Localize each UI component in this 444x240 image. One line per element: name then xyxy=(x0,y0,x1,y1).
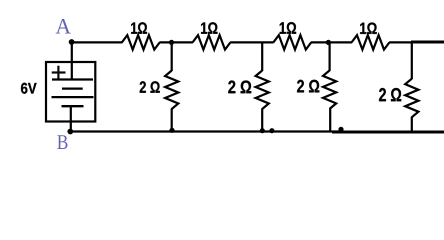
label R2 1-ohm xyxy=(201,22,217,33)
wire: junction 4 to right edge (thicker) xyxy=(411,41,444,44)
resistor R5 bottom lead xyxy=(171,109,173,132)
node B dot xyxy=(67,129,73,135)
resistor R1 1ohm zigzag xyxy=(122,35,160,50)
resistor R2 1ohm zigzag xyxy=(193,35,231,50)
wire: R4 to junction 4 xyxy=(389,41,413,43)
node A dot xyxy=(69,39,75,45)
label R1 1-ohm xyxy=(131,22,147,33)
battery bottom lead wire xyxy=(70,106,72,131)
node label A xyxy=(56,19,71,34)
resistor R5 2ohm vertical zigzag xyxy=(165,71,178,110)
junction dot top 3 xyxy=(326,40,331,45)
label R7 2-ohm xyxy=(297,80,319,93)
battery plate long 2 xyxy=(52,96,94,98)
resistor R3 1ohm zigzag xyxy=(273,35,311,50)
wire: R2 to R3 through junction 2 xyxy=(230,41,274,43)
wire top: node A to R1 xyxy=(71,41,123,43)
resistor R6 2ohm vertical: top lead xyxy=(261,42,263,71)
wire: R1 to junction 1 xyxy=(159,41,193,43)
label 6V xyxy=(21,83,37,94)
label R8 2-ohm xyxy=(379,88,401,101)
battery V1 box xyxy=(46,62,95,122)
resistor R6 2ohm vertical zigzag xyxy=(256,71,269,110)
label R4 1-ohm xyxy=(360,23,377,34)
resistor R8 bottom lead xyxy=(411,117,413,132)
resistor R7 bottom lead xyxy=(329,108,331,131)
battery top lead wire xyxy=(71,42,73,79)
junction dot bottom 1 xyxy=(169,128,174,133)
resistor R8 2ohm vertical zigzag xyxy=(405,79,418,118)
wire bottom: node B to VR3 xyxy=(70,130,341,132)
resistor R4 1ohm zigzag xyxy=(352,35,390,50)
label R5 2-ohm xyxy=(140,81,160,92)
resistor R6 bottom lead xyxy=(261,109,263,132)
resistor R8 2ohm vertical: top lead xyxy=(411,42,413,79)
battery plate short 2 xyxy=(62,105,84,107)
junction dot top 1 xyxy=(169,40,174,45)
resistor R7 2ohm vertical zigzag xyxy=(323,70,336,109)
wire: R3 to R4 through junction 3 xyxy=(311,41,352,43)
battery plate long 1 xyxy=(52,78,93,80)
node label B xyxy=(57,135,67,149)
junction dot bottom 2 xyxy=(260,128,265,133)
resistor R7 2ohm vertical: top lead xyxy=(329,42,331,71)
label R3 1-ohm xyxy=(280,22,296,34)
resistor R5 2ohm vertical: top lead xyxy=(171,42,173,71)
junction dot bottom 2b xyxy=(269,128,274,133)
battery plate short 1 xyxy=(62,87,83,89)
battery plus sign xyxy=(52,66,66,80)
wire bottom right (thicker) xyxy=(332,130,444,133)
junction dot bottom 3 xyxy=(338,127,343,132)
label R6 2-ohm xyxy=(228,81,251,94)
